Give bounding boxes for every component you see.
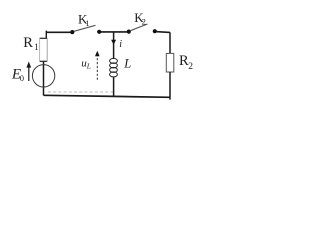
svg-text:1: 1 <box>85 18 89 28</box>
svg-text:2: 2 <box>188 62 193 72</box>
svg-text:2: 2 <box>142 16 146 26</box>
svg-text:0: 0 <box>20 73 24 83</box>
svg-text:L: L <box>86 62 91 71</box>
svg-text:R: R <box>23 35 33 51</box>
svg-text:1: 1 <box>34 42 39 52</box>
svg-text:i: i <box>119 39 122 50</box>
svg-text:L: L <box>123 56 131 70</box>
